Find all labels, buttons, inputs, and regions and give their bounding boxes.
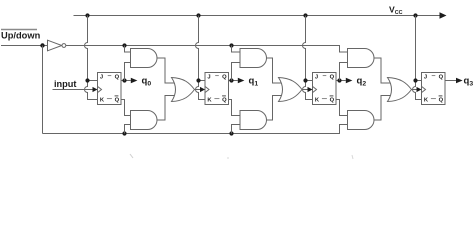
JK flip-flop FF0 (98, 73, 122, 105)
junction up line stage 0 (122, 43, 126, 47)
clock arrowhead FF2 (308, 87, 313, 92)
wire q1 to up AND (232, 63, 241, 81)
JK flip-flop FF1 (205, 73, 229, 105)
wire q0 to up AND (125, 63, 131, 81)
wire down AND out to OR (stage 0) (157, 96, 177, 121)
wire up AND out to OR (stage 0) (157, 58, 177, 83)
svg-text:Q: Q (330, 98, 335, 104)
junction node J feed FF0 (85, 78, 89, 82)
wire q2 to up AND (340, 63, 348, 81)
svg-text:Q: Q (330, 75, 335, 81)
junction node q1 (229, 78, 233, 82)
wire down rail tap stage 1 (232, 125, 241, 134)
AND gate up (stage 2) (348, 49, 375, 68)
wire up AND out to OR (stage 2) (374, 58, 393, 83)
node q0 arrow marker (131, 78, 138, 83)
wire down rail tap stage 0 (125, 125, 131, 134)
wire q2 output (336, 80, 346, 82)
svg-text:J: J (207, 75, 210, 81)
svg-text:Q: Q (115, 75, 120, 81)
clock chevron FF2 (313, 86, 317, 92)
junction node J feed FF2 (303, 78, 307, 82)
svg-text:Q: Q (439, 75, 444, 81)
junction down rail stage 0 (122, 131, 126, 135)
svg-text:Q: Q (222, 98, 227, 104)
svg-text:input: input (54, 79, 76, 89)
node q2 arrow marker (346, 78, 353, 83)
wire down AND out to OR (stage 2) (374, 96, 393, 121)
svg-text:VCC: VCC (389, 5, 403, 17)
node q3 arrow marker (456, 78, 463, 83)
junction node Vcc rail / stage 1 (196, 13, 200, 17)
wire up line tap stage 2 (340, 46, 348, 53)
wire Vcc feed to J/K of FF0 (with wire hops) (85, 16, 98, 100)
svg-text:J: J (424, 75, 427, 81)
wire OR out to FF3 clock (412, 89, 418, 91)
wire (faint ghost mark) (352, 155, 353, 159)
JK flip-flop FF3 (422, 73, 446, 105)
wire up AND out to OR (stage 1) (267, 58, 284, 83)
junction node J feed FF1 (196, 78, 200, 82)
wire q1-bar to down AND (229, 100, 241, 116)
AND gate up (stage 0) (131, 49, 158, 68)
clock arrowhead FF3 (417, 87, 422, 92)
wire down AND out to OR (stage 1) (267, 96, 284, 121)
inverter U1 (up/down complement) (48, 40, 62, 51)
OR gate (stage 0) (172, 78, 195, 102)
wire Vcc supply rail (74, 15, 441, 17)
svg-text:q1: q1 (249, 76, 259, 88)
wire up line tap stage 1 (232, 46, 241, 53)
wire Vcc feed to J/K of FF1 (with wire hops) (196, 16, 205, 100)
junction node J feed FF3 (413, 78, 417, 82)
svg-text:q2: q2 (357, 76, 367, 88)
junction node up/down split (40, 43, 44, 47)
wire q2-bar to down AND (336, 100, 348, 116)
svg-text:J: J (100, 75, 103, 81)
svg-text:Q: Q (115, 98, 120, 104)
junction node Vcc rail / stage 2 (303, 13, 307, 17)
wire down distribution rail (bottom) (43, 125, 348, 134)
junction node Vcc rail / stage 3 (413, 13, 417, 17)
wire up line tap stage 0 (125, 46, 131, 53)
Vcc rail arrowhead (440, 12, 447, 18)
svg-text:Q: Q (439, 98, 444, 104)
wire down branch vertical (42, 46, 44, 134)
clock chevron FF3 (422, 86, 426, 92)
junction up line stage 1 (229, 43, 233, 47)
AND gate down (stage 2) (348, 111, 375, 130)
clock chevron FF0 (98, 86, 102, 92)
OR gate (stage 1) (279, 78, 303, 102)
junction node q0 (122, 78, 126, 82)
AND gate up (stage 1) (240, 49, 267, 68)
wire J branch FF2 (306, 80, 313, 82)
wire Vcc feed to J/K of FF2 (with wire hops) (303, 16, 313, 100)
wire (faint ghost mark) (130, 154, 133, 158)
svg-text:q3: q3 (464, 76, 474, 88)
OR gate (stage 2) (388, 78, 412, 102)
wire q1 output (229, 80, 238, 82)
wire OR out to FF2 clock (302, 89, 308, 91)
wire q0 output (121, 80, 131, 82)
node q1 arrow marker (238, 78, 245, 83)
clock chevron FF1 (205, 86, 209, 92)
wire J branch FF1 (199, 80, 206, 82)
wire clock input line (53, 89, 94, 91)
wire J branch FF3 (416, 80, 422, 82)
wire J branch FF0 (88, 80, 98, 82)
wire Up/down input (1, 45, 48, 47)
svg-text:Up/down: Up/down (1, 31, 41, 41)
wire Vcc feed to J/K of FF3 (with wire hops) (413, 16, 422, 100)
svg-text:q0: q0 (142, 76, 152, 88)
clock arrowhead FF1 (200, 87, 205, 92)
wire (faint ghost mark) (227, 157, 229, 159)
junction node Vcc rail / stage 0 (85, 13, 89, 17)
JK flip-flop FF2 (313, 73, 337, 105)
clock arrowhead FF0 (93, 87, 98, 92)
AND gate down (stage 1) (240, 111, 267, 130)
AND gate down (stage 0) (131, 111, 158, 130)
junction down rail stage 1 (229, 131, 233, 135)
junction node q2 (337, 78, 341, 82)
wire OR out to FF1 clock (195, 89, 201, 91)
svg-text:J: J (315, 75, 318, 81)
wire q3 output (445, 80, 456, 82)
svg-text:Q: Q (222, 75, 227, 81)
wire up distribution line (inverter output) (66, 46, 348, 53)
wire q0-bar to down AND (121, 100, 131, 116)
